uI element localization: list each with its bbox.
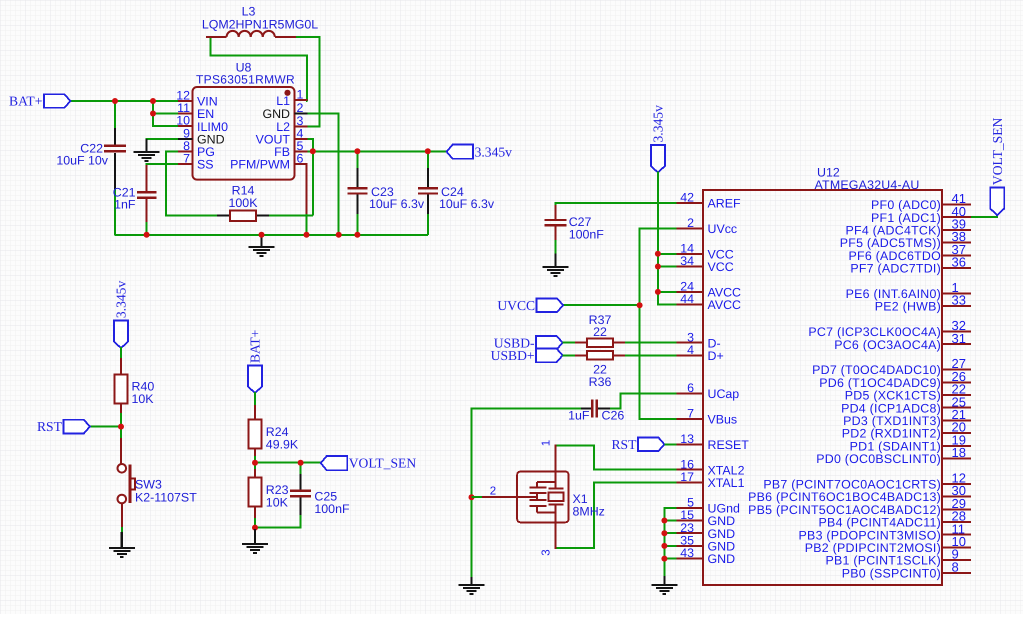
U12 pin 18 stub (942, 458, 971, 460)
svg-text:33: 33 (952, 293, 966, 308)
capacitor C23 plates (347, 188, 367, 193)
wire crystal pin3 to XTAL1 (556, 482, 677, 548)
ground stem divider (254, 529, 256, 544)
wire VCC pin 34 tap (658, 266, 677, 268)
svg-text:1nF: 1nF (114, 198, 136, 212)
wire SW3 ground short (121, 527, 123, 534)
svg-text:18: 18 (952, 445, 966, 460)
U12 pin 35 stub (676, 545, 702, 547)
junction R24/R23/VOLT_SEN (252, 460, 258, 466)
wire R14 right to FB net (269, 215, 313, 217)
ground symbol under U12 (651, 585, 677, 594)
wire L3 right terminal to U8 L2 pin 3 (295, 37, 319, 127)
svg-text:PF7 (ADC7TDI): PF7 (ADC7TDI) (850, 262, 941, 276)
svg-text:3.345v: 3.345v (475, 144, 513, 159)
svg-text:PE2 (HWB): PE2 (HWB) (875, 300, 941, 314)
junction EN/ILIM0 (150, 111, 156, 117)
U12 pin 37 stub (942, 254, 971, 256)
wire BAT+ to ILIM0 pin 10 (153, 101, 180, 126)
switch SW3 contact circle 1 (118, 464, 127, 473)
capacitor C27 top pin (555, 205, 557, 219)
net flag 3.345v output (447, 145, 474, 159)
svg-text:13: 13 (680, 432, 694, 446)
wire 3.345v to VCC/AVCC (658, 172, 677, 305)
svg-text:10K: 10K (132, 392, 155, 406)
U12 pin 22 stub (942, 394, 971, 396)
U8 pin 3 stub (295, 126, 308, 128)
resistor R24 bottom lead (254, 448, 256, 458)
svg-text:100nF: 100nF (314, 502, 350, 516)
junction 3.345v VCC14 (655, 251, 661, 257)
svg-text:7: 7 (183, 151, 190, 165)
svg-text:XTAL1: XTAL1 (708, 476, 745, 490)
U12 pin 44 stub (676, 304, 702, 306)
U8 pin 5 stub (295, 150, 308, 152)
svg-text:42: 42 (680, 191, 694, 205)
resistor R37 left lead (575, 342, 587, 344)
capacitor C23 top pin (356, 168, 358, 188)
wire L3 left terminal to U8 L1 pin 1 (211, 37, 308, 101)
svg-text:VCC: VCC (708, 260, 734, 274)
svg-text:TPS63051RMWR: TPS63051RMWR (196, 73, 295, 87)
net flag VOLT_SEN divider (321, 456, 348, 470)
junction 3.345v AVCC (655, 289, 661, 295)
svg-text:4: 4 (687, 343, 694, 357)
U12 pin 42 stub (676, 202, 702, 204)
svg-text:1uF: 1uF (568, 409, 590, 423)
junction GND15 (661, 518, 667, 524)
U12 pin 26 stub (942, 381, 971, 383)
wire R37 to D- (625, 342, 676, 344)
U8 pin 11 stub (178, 113, 193, 115)
resistor R40 top lead (120, 358, 122, 375)
wire BAT+ net to U8 VIN pin 12 (70, 100, 179, 102)
U12 pin 41 stub (942, 204, 971, 206)
wire 3.345v flag to R40 (120, 347, 122, 361)
wire R36 to D+ (625, 354, 676, 356)
net flag RST left (63, 420, 90, 434)
svg-text:K2-1107ST: K2-1107ST (135, 491, 197, 505)
svg-text:GND: GND (708, 552, 736, 566)
svg-text:UVCC: UVCC (497, 298, 535, 313)
crystal X1 bottom stub (555, 522, 557, 549)
wire C27 to ground (555, 240, 557, 255)
U12 pin 38 stub (942, 242, 971, 244)
U12 pin 32 stub (942, 331, 971, 333)
U12 pin 10 stub (942, 546, 971, 548)
wire SW3 to ground (121, 503, 123, 529)
capacitor C26 left pin (579, 408, 592, 410)
U8 pin 9 stub (178, 138, 193, 140)
resistor R40 (115, 375, 128, 404)
svg-text:PB0 (SSPCINT0): PB0 (SSPCINT0) (842, 566, 941, 580)
wire R23 to ground node (254, 518, 256, 528)
resistor R14 (230, 210, 256, 220)
wire UCap to C26 (598, 394, 676, 409)
resistor R24 top lead (254, 405, 256, 419)
wire UVcc net vertical (640, 228, 677, 419)
capacitor C21 plates (137, 192, 157, 197)
wire PFM/PWM vertical (306, 164, 308, 216)
svg-text:6: 6 (297, 151, 304, 165)
wire U8 PG pin 8 to R14 left (166, 151, 218, 215)
capacitor C22 top pin (114, 128, 116, 145)
U8 pin 7 stub (178, 163, 193, 165)
wire GND43 tap (664, 558, 676, 560)
wire C24 bottom to rail (427, 214, 429, 235)
capacitor C25 bottom pin (300, 497, 302, 517)
svg-text:BAT+: BAT+ (9, 94, 42, 109)
wire C23 bottom to rail (356, 214, 358, 235)
ground symbol crystal net (459, 585, 485, 594)
U12 pin 24 stub (676, 291, 702, 293)
resistor R14 left lead (217, 215, 230, 217)
capacitor C25 plates (290, 491, 311, 496)
svg-text:AREF: AREF (708, 197, 741, 211)
svg-text:VOLT_SEN: VOLT_SEN (990, 117, 1005, 185)
wire C23 top lead (356, 151, 358, 170)
svg-text:1: 1 (541, 440, 553, 446)
U12 pin 11 stub (942, 534, 971, 536)
capacitor C27 bottom pin (555, 225, 557, 242)
U12 pin 13 stub (676, 443, 702, 445)
U12 pin 28 stub (942, 521, 971, 523)
wire GND23 tap (664, 532, 676, 534)
svg-text:6: 6 (687, 381, 694, 395)
svg-text:GND: GND (262, 107, 290, 121)
svg-text:C26: C26 (602, 409, 625, 423)
svg-text:2: 2 (687, 216, 694, 230)
wire C26 left to ground net (472, 409, 582, 579)
wire U8 GND pin 9 to ground (147, 139, 180, 141)
ground symbol at U8 pin 9 (134, 152, 160, 161)
junction rail PFM (304, 232, 310, 238)
U12 pin 27 stub (942, 369, 971, 371)
svg-text:AVCC: AVCC (708, 298, 742, 312)
crystal X1 top stub (555, 444, 557, 471)
svg-text:10uF 6.3v: 10uF 6.3v (439, 197, 495, 211)
svg-text:SW3: SW3 (135, 478, 162, 492)
wire U8 SS pin 7 to C21 (147, 164, 180, 168)
U8 pin 1 stub (295, 99, 308, 101)
U12 pin 23 stub (676, 532, 702, 534)
svg-text:3.345v: 3.345v (651, 105, 666, 143)
wire crystal pin2 to ground net (472, 496, 483, 498)
svg-text:10K: 10K (266, 496, 289, 510)
svg-text:3: 3 (541, 549, 553, 555)
ground symbol under C27 (543, 267, 569, 276)
svg-text:8: 8 (952, 559, 959, 574)
U12 pin 14 stub (676, 253, 702, 255)
svg-text:PD0 (OC0BSCLINT0): PD0 (OC0BSCLINT0) (816, 452, 941, 466)
wire UGnd/GND bus (664, 508, 676, 578)
svg-text:2: 2 (490, 486, 496, 498)
svg-text:RESET: RESET (708, 438, 750, 452)
net flag USBD- (536, 336, 563, 350)
ground symbol under divider (242, 544, 268, 553)
U12 pin 43 stub (676, 558, 702, 560)
resistor R36 left lead (575, 354, 587, 356)
net flag BAT+ input (44, 94, 71, 108)
net flag BAT+ divider (248, 366, 262, 394)
ground stem C27 (554, 253, 556, 266)
svg-text:BAT+: BAT+ (248, 330, 263, 363)
U8 pin 10 stub (178, 125, 193, 127)
U8 pin 6 stub (295, 163, 308, 165)
resistor R36 (587, 351, 613, 360)
svg-text:R36: R36 (589, 375, 612, 389)
net flag USBD+ (536, 349, 563, 363)
svg-text:VOLT_SEN: VOLT_SEN (349, 456, 417, 471)
U12 pin 25 stub (942, 407, 971, 409)
U12 pin 40 stub (942, 216, 971, 218)
wire RST to RESET pin (664, 443, 676, 445)
resistor R23 bottom lead (254, 506, 256, 520)
capacitor C23 bottom pin (356, 194, 358, 216)
junction rail C23 (354, 232, 360, 238)
U12 pin 4 stub (676, 354, 702, 356)
net flag RST U12 (638, 438, 665, 452)
svg-text:49.9K: 49.9K (266, 438, 299, 452)
wire USBD- to R37 (563, 342, 576, 344)
wire PFM/PWM to ground rail (306, 214, 308, 235)
U12 pin 12 stub (942, 483, 971, 485)
U12 pin 21 stub (942, 419, 971, 421)
net flag 3.345v pullup (114, 321, 128, 349)
U12 pin 20 stub (942, 432, 971, 434)
resistor R37 right lead (613, 342, 626, 344)
svg-text:3.345v: 3.345v (114, 281, 129, 319)
ground rail under U8 (115, 234, 428, 236)
svg-text:7: 7 (687, 407, 694, 421)
op-amp U8 TPS63051RMWR body (193, 87, 295, 180)
U12 pin 6 stub (676, 393, 702, 395)
wire R24 to divider node (254, 456, 256, 471)
svg-text:2: 2 (297, 101, 304, 115)
U12 pin 39 stub (942, 229, 971, 231)
resistor R23 (249, 477, 262, 506)
wire R40 to RST node (120, 413, 122, 440)
svg-text:UVcc: UVcc (708, 222, 738, 236)
svg-text:D+: D+ (708, 349, 724, 363)
wire C24 top lead (427, 151, 429, 170)
crystal X1 8MHz (517, 472, 568, 523)
junction crystal pin2 (469, 494, 475, 500)
capacitor C21 top pin (146, 165, 148, 192)
wire AREF to C27 (556, 203, 677, 220)
junction FB/C24 (425, 148, 431, 154)
resistor R37 (587, 338, 613, 347)
junction FB/C23 (354, 148, 360, 154)
junction BAT+/EN branch (150, 98, 156, 104)
U12 pin 16 stub (676, 469, 702, 471)
wire BAT+ flag to R24 (254, 392, 256, 407)
wire C25 bottom to ground node (255, 515, 301, 528)
switch SW3 contact circle 2 (118, 495, 127, 504)
U12 pin 17 stub (676, 481, 702, 483)
resistor R40 bottom lead (120, 404, 122, 416)
U12 pin 1 stub (942, 292, 971, 294)
net flag UVCC (537, 298, 564, 312)
capacitor C24 bottom pin (427, 194, 429, 216)
U12 pin 3 stub (676, 342, 702, 344)
wire C22 bottom to ground rail (114, 189, 116, 235)
net flag VOLT_SEN U12 (990, 188, 1004, 216)
ground symbol under SW3 (109, 548, 135, 557)
U12 pin 36 stub (942, 267, 971, 269)
svg-text:22: 22 (593, 325, 607, 339)
svg-text:USBD+: USBD+ (491, 348, 535, 363)
svg-text:34: 34 (680, 254, 694, 268)
wire crystal pin1 to XTAL2 (556, 445, 677, 469)
junction 3.345v VCC34 (655, 264, 661, 270)
capacitor C26 plates (592, 400, 596, 418)
svg-text:8MHz: 8MHz (573, 505, 605, 519)
ground rail stem (260, 235, 262, 248)
ground stem SW3 (121, 532, 123, 548)
junction GND35 (661, 543, 667, 549)
wire FB output rail to 3.345v flag (308, 150, 447, 152)
wire VCC pin 14 tap (658, 253, 677, 255)
resistor R36 right lead (613, 354, 626, 356)
microcontroller U12 ATMEGA32U4-AU body (703, 190, 942, 585)
capacitor C27 plates (545, 220, 567, 225)
U12 pin 2 stub (676, 227, 702, 229)
switch SW3 actuator (130, 465, 135, 504)
svg-text:31: 31 (952, 331, 966, 346)
svg-text:L3: L3 (242, 5, 256, 19)
svg-text:RST: RST (611, 437, 637, 452)
U8 pin 2 stub (295, 113, 308, 115)
svg-text:10uF 6.3v: 10uF 6.3v (369, 197, 425, 211)
svg-text:RST: RST (37, 419, 63, 434)
wire GND15 tap (664, 520, 676, 522)
junction rail C21 (144, 232, 150, 238)
crystal X1 pin2 lead (480, 496, 537, 498)
wire node to SW3 (120, 438, 122, 464)
svg-text:17: 17 (680, 470, 694, 484)
U12 pin 7 stub (676, 418, 702, 420)
wire GND35 tap (664, 545, 676, 547)
junction RST/R40/SW3 (118, 424, 124, 430)
junction GND43 (661, 556, 667, 562)
capacitor C22 bottom pin (114, 153, 116, 191)
svg-text:10uF 10v: 10uF 10v (56, 154, 108, 168)
junction rail ground (259, 232, 265, 238)
svg-text:L1: L1 (276, 94, 290, 108)
capacitor C22 plates (104, 146, 126, 151)
U12 pin 33 stub (942, 305, 971, 307)
wire C22 top lead (114, 101, 116, 130)
U12 pin 31 stub (942, 343, 971, 345)
U12 pin 29 stub (942, 508, 971, 510)
wire U8 GND pin 2 to rail (307, 114, 339, 235)
inductor L3 (206, 31, 296, 37)
svg-text:UCap: UCap (708, 387, 740, 401)
capacitor C21 bottom pin (146, 199, 148, 224)
U12 pin 30 stub (942, 496, 971, 498)
capacitor C24 top pin (427, 168, 429, 188)
wire C21 bottom to rail (146, 222, 148, 235)
capacitor C25 top pin (300, 474, 302, 490)
U12 pin 15 stub (676, 520, 702, 522)
capacitor C26 right pin (597, 408, 610, 410)
U12 pin 34 stub (676, 266, 702, 268)
ground stem pin9 (145, 139, 147, 152)
svg-text:SS: SS (197, 157, 214, 171)
svg-text:100K: 100K (229, 196, 259, 210)
resistor R14 right lead (256, 215, 270, 217)
wire USBD+ to R36 (563, 354, 576, 356)
svg-text:44: 44 (680, 292, 694, 306)
junction GND23 (661, 530, 667, 536)
ground stem U12 (663, 576, 665, 585)
wire AVCC pin 24 tap (658, 291, 677, 293)
wire VOLT_SEN to PF1 pin 40 (969, 214, 997, 217)
junction BAT+/C22 (112, 98, 118, 104)
U12 pin 19 stub (942, 445, 971, 447)
junction VOUT/FB (310, 148, 316, 154)
junction R23/C25 ground (252, 525, 258, 531)
junction UVCC flag (637, 302, 643, 308)
wire UVCC flag to net (563, 304, 640, 306)
svg-text:ATMEGA32U4-AU: ATMEGA32U4-AU (815, 178, 920, 192)
wire U8 PFM/PWM pin 6 down (295, 163, 307, 165)
junction C25 top (298, 460, 304, 466)
svg-text:43: 43 (680, 546, 694, 560)
ground symbol under U8 (249, 247, 275, 256)
resistor R24 (249, 419, 262, 448)
svg-text:PC6 (OC3AOC4A): PC6 (OC3AOC4A) (834, 338, 941, 352)
U8 pin 4 stub (295, 138, 308, 140)
U12 pin 8 stub (942, 572, 971, 574)
wire RST flag to node (90, 426, 121, 428)
ground stem crystal net (470, 577, 472, 585)
svg-text:LQM2HPN1R5MG0L: LQM2HPN1R5MG0L (202, 18, 318, 32)
wire divider node to VOLT_SEN flag (255, 462, 321, 464)
U8 pin 12 stub (178, 100, 193, 102)
wire U8 VOUT pin 4 to FB node (308, 139, 313, 216)
svg-text:36: 36 (952, 255, 966, 270)
junction rail GND2 (336, 232, 342, 238)
wire EN/ILIM0 branch (153, 113, 180, 115)
U8 pin-1 marker dot (284, 90, 290, 96)
U12 pin 5 stub (676, 507, 702, 509)
svg-text:100nF: 100nF (569, 228, 605, 242)
resistor R23 top lead (254, 469, 256, 477)
wire C25 top lead (300, 463, 302, 476)
U8 pin 8 stub (178, 150, 193, 152)
svg-text:1: 1 (297, 88, 304, 102)
capacitor C24 plates (418, 188, 438, 193)
svg-text:PFM/PWM: PFM/PWM (230, 157, 290, 171)
net flag 3.345v U12 supply (651, 145, 665, 173)
svg-text:VBus: VBus (708, 413, 738, 427)
U12 pin 9 stub (942, 559, 971, 561)
